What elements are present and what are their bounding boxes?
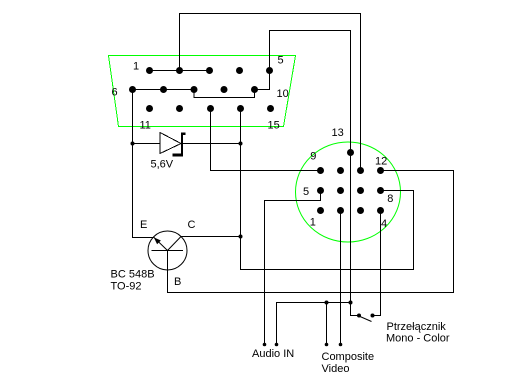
- svg-text:Mono - Color: Mono - Color: [386, 333, 450, 345]
- VGA pin 5: [266, 67, 273, 74]
- transistor Q1 emitter diagonal: [154, 237, 168, 251]
- wire VGA pin6 down to emitter: [133, 90, 154, 238]
- terminal audio in 1: [263, 343, 267, 347]
- junction diode anode / pin6 line: [131, 142, 135, 146]
- DIN pin 12: [377, 167, 384, 174]
- VGA pin 7: [160, 86, 167, 93]
- svg-text:11: 11: [140, 120, 151, 132]
- svg-text:Ptrzełącznik: Ptrzełącznik: [387, 321, 447, 333]
- VGA pin 1: [146, 67, 153, 74]
- transistor Q1 emitter arrowhead: [154, 237, 161, 244]
- wire VGA pin13 to DIN pin9: [211, 109, 321, 171]
- junction ground bus / pin13 line: [349, 301, 353, 305]
- wire diode anode: [133, 143, 161, 145]
- DIN pin 8: [377, 187, 384, 194]
- svg-text:5,6V: 5,6V: [151, 159, 174, 171]
- DIN pin 11: [357, 167, 364, 174]
- DIN pin 6: [337, 187, 344, 194]
- VGA pin 2: [176, 67, 183, 74]
- transistor Q1 base bar: [152, 250, 184, 252]
- wire diode cathode to pin14 line: [183, 143, 241, 145]
- transistor Q1 body circle: [148, 231, 187, 270]
- svg-text:13: 13: [332, 127, 344, 139]
- svg-text:6: 6: [112, 87, 118, 99]
- VGA pin 3: [206, 67, 213, 74]
- svg-text:Audio IN: Audio IN: [252, 348, 294, 360]
- svg-text:8: 8: [387, 193, 393, 205]
- DIN pin 5: [317, 187, 324, 194]
- svg-text:TO-92: TO-92: [111, 281, 142, 293]
- svg-text:C: C: [188, 219, 196, 231]
- svg-text:1: 1: [310, 217, 316, 229]
- switch S1 left contact: [357, 314, 361, 318]
- svg-text:5: 5: [303, 186, 309, 198]
- DIN pin 1: [317, 207, 324, 214]
- VGA pin 14: [237, 105, 244, 112]
- wire VGA pin14 through diode junctions to DIN pin8: [241, 109, 414, 270]
- zener diode D1 triangle: [160, 133, 181, 154]
- svg-text:9: 9: [310, 151, 316, 163]
- svg-text:4: 4: [381, 218, 387, 230]
- DIN pin 3: [357, 207, 364, 214]
- svg-text:Composite: Composite: [322, 351, 375, 363]
- VGA pin 13: [207, 105, 214, 112]
- terminal composite 2: [339, 343, 343, 347]
- VGA pin 6: [129, 86, 136, 93]
- wire collector: [181, 236, 241, 238]
- wire VGA pin5 to pin10: [255, 71, 270, 90]
- zener diode D1 cathode bar: [181, 133, 183, 154]
- switch S1 right contact: [371, 314, 375, 318]
- wire DIN pin4 to switch right contact: [373, 211, 381, 316]
- wire U-jog pin8 to pin10: [194, 90, 255, 98]
- wire DIN pin5 to Audio IN: [265, 191, 321, 345]
- transistor Q1 collector diagonal: [168, 237, 182, 251]
- wire DIN pin2 to Composite Video: [340, 211, 342, 345]
- VGA pin 4: [236, 67, 243, 74]
- switch S1 lever: [360, 317, 372, 322]
- VGA pin 12: [176, 105, 183, 112]
- wire base to DIN pin12: [168, 171, 454, 293]
- junction composite tap: [325, 301, 329, 305]
- DIN pin 13: [347, 149, 354, 156]
- VGA pin 8: [191, 86, 198, 93]
- VGA connector shell J1 (DB15 trapezoid): [109, 56, 296, 127]
- DIN pin 7: [357, 187, 364, 194]
- svg-text:1: 1: [133, 61, 139, 73]
- wire VGA pin5 to DIN pin13: [270, 31, 351, 153]
- wire VGA pin2 to DIN pin11: [180, 14, 361, 171]
- zener diode D1 cathode bottom tick: [173, 154, 184, 157]
- svg-text:10: 10: [277, 88, 289, 100]
- wire composite tap: [326, 303, 328, 345]
- terminal audio in 2: [275, 343, 279, 347]
- svg-text:E: E: [140, 219, 147, 231]
- svg-text:BC 548B: BC 548B: [111, 269, 155, 281]
- DIN pin 9: [317, 167, 324, 174]
- wire ground bus to audio/composite: [277, 303, 351, 345]
- VGA pin 9: [221, 86, 228, 93]
- DIN pin 10: [337, 167, 344, 174]
- transistor Q1 base lead: [167, 251, 169, 293]
- DIN pin 4: [377, 207, 384, 214]
- svg-text:B: B: [174, 276, 181, 288]
- VGA pin 11: [146, 105, 153, 112]
- junction diode cathode / pin14 line: [239, 142, 243, 146]
- DIN connector shell J2 (circle): [296, 142, 401, 242]
- zener diode D1 cathode top tick: [183, 133, 186, 136]
- DIN pin 2: [337, 207, 344, 214]
- svg-text:5: 5: [278, 55, 284, 67]
- terminal composite 1: [325, 343, 329, 347]
- wire pins 6-7-8 VGA: [133, 89, 195, 91]
- VGA pin 10: [251, 86, 258, 93]
- svg-text:15: 15: [268, 120, 280, 132]
- junction collector / pin14 line: [239, 235, 243, 239]
- wire DIN pin13 down to switch bus: [351, 153, 360, 316]
- svg-text:Video: Video: [322, 363, 350, 375]
- wire pins 1-2-3 VGA: [150, 70, 210, 72]
- svg-text:12: 12: [375, 156, 387, 168]
- VGA pin 15: [267, 105, 274, 112]
